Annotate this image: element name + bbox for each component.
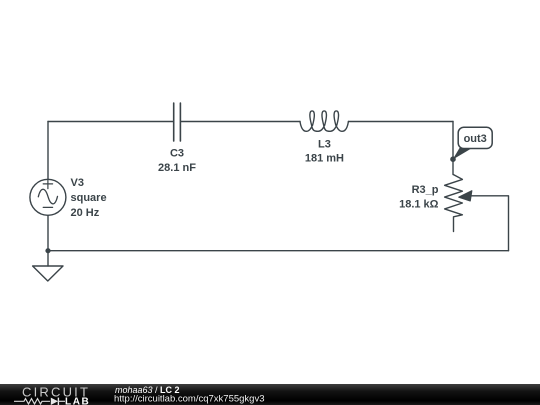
svg-text:R3_p: R3_p <box>412 184 439 196</box>
svg-text:http://circuitlab.com/cq7xk755: http://circuitlab.com/cq7xk755gkgv3 <box>114 394 265 405</box>
wire top-left horizontal <box>48 121 173 123</box>
svg-text:181 mH: 181 mH <box>305 153 344 165</box>
wire bottom rail <box>48 250 509 252</box>
node out3 flag tail <box>453 148 473 160</box>
junction dot at ground node <box>45 248 50 253</box>
svg-text:C3: C3 <box>170 148 184 160</box>
svg-text:20 Hz: 20 Hz <box>71 207 100 219</box>
wire left vertical source bottom to ground <box>47 215 49 266</box>
ground <box>33 266 63 281</box>
wire inductor to top-right corner <box>349 121 454 123</box>
wire wiper arm <box>470 196 509 251</box>
node out3 flag box <box>458 127 492 148</box>
svg-text:V3: V3 <box>71 177 84 189</box>
voltage source V3 <box>30 179 66 215</box>
logo resistor squiggle <box>14 399 50 404</box>
inductor L3 <box>300 111 348 131</box>
potentiometer wiper arrow <box>459 191 472 201</box>
capacitor C3 <box>174 103 181 141</box>
wire left vertical source top <box>47 122 49 180</box>
potentiometer R3_p zigzag <box>445 175 463 232</box>
svg-text:LAB: LAB <box>65 396 90 405</box>
wire right vertical to potentiometer <box>452 122 454 175</box>
svg-text:square: square <box>71 192 107 204</box>
svg-text:L3: L3 <box>318 139 331 151</box>
svg-text:18.1 kΩ: 18.1 kΩ <box>399 199 439 211</box>
svg-text:28.1 nF: 28.1 nF <box>158 162 196 174</box>
wire capacitor to inductor <box>181 121 300 123</box>
logo diode <box>51 398 58 405</box>
svg-text:out3: out3 <box>464 133 487 145</box>
node out3 junction dot <box>450 156 456 162</box>
